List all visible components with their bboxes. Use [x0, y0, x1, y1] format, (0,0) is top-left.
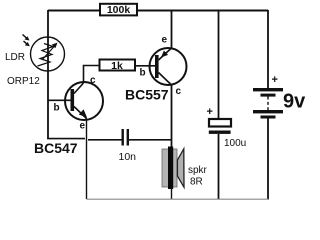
label BC557	[125, 87, 169, 103]
label 8R	[190, 177, 203, 188]
speaker spkr 8R	[162, 147, 184, 190]
svg-text:BC557: BC557	[125, 87, 169, 103]
svg-text:b: b	[140, 68, 146, 79]
svg-text:BC547: BC547	[34, 140, 78, 156]
svg-text:ORP12: ORP12	[7, 76, 40, 87]
wire left rail bottom horizontal to emitter node	[47, 138, 85, 140]
LDR ORP12	[31, 37, 65, 71]
transistor Q2 BC557	[150, 48, 187, 86]
wire 100u top from rail	[218, 10, 220, 119]
wire bottom rail	[87, 198, 269, 200]
capacitor 100u	[209, 119, 231, 134]
wire speaker to bottom rail	[171, 187, 173, 199]
wire battery top from rail	[267, 10, 269, 88]
svg-text:8R: 8R	[190, 177, 203, 188]
svg-text:c: c	[176, 86, 182, 97]
label 9v	[283, 91, 306, 113]
wire BC547 emitter down	[86, 118, 88, 199]
svg-text:+: +	[272, 74, 278, 86]
pin label c (BC547)	[90, 75, 96, 86]
resistor 100k	[100, 4, 137, 16]
svg-text:b: b	[54, 103, 60, 114]
light arrow 2 into LDR	[24, 41, 30, 46]
transistor Q1 BC547	[65, 82, 103, 120]
svg-text:c: c	[90, 75, 96, 86]
pin label c (BC557)	[176, 86, 182, 97]
battery 9v	[253, 88, 283, 119]
pin label b (BC547)	[54, 103, 60, 114]
wire BC547 base wire	[48, 99, 71, 101]
svg-text:100u: 100u	[224, 138, 246, 149]
wire 10n right plate to speaker node	[129, 139, 172, 141]
label ORP12	[7, 76, 40, 87]
wire BC557 emitter to top rail	[171, 10, 173, 48]
wire BC547 collector up	[84, 66, 101, 84]
label BC547	[34, 140, 78, 156]
wire emitter node to 10n left plate	[88, 139, 122, 141]
resistor 1k	[100, 60, 136, 72]
label + (battery)	[272, 74, 278, 86]
svg-text:spkr: spkr	[188, 165, 208, 176]
label 100u	[224, 138, 246, 149]
label + (100u)	[207, 106, 213, 118]
label 10n	[119, 151, 137, 163]
svg-text:LDR: LDR	[5, 52, 25, 63]
wire 100u bottom to rail	[218, 134, 220, 199]
svg-text:e: e	[80, 121, 86, 132]
pin label e (BC547)	[80, 121, 86, 132]
svg-text:100k: 100k	[107, 4, 131, 16]
light arrow 1 into LDR	[23, 35, 30, 41]
svg-text:1k: 1k	[111, 60, 123, 72]
svg-text:e: e	[162, 35, 168, 46]
capacitor 10n	[122, 129, 130, 146]
wire 1k to BC557 base	[135, 65, 155, 67]
wire top rail	[48, 10, 268, 12]
label LDR	[5, 52, 25, 63]
svg-text:9v: 9v	[283, 91, 306, 113]
pin label b (BC557)	[140, 68, 146, 79]
svg-text:10n: 10n	[119, 151, 137, 163]
wire BC557 collector down to speaker	[171, 85, 173, 149]
pin label e (BC557)	[162, 35, 168, 46]
svg-text:+: +	[207, 106, 213, 118]
wire left rail vertical	[47, 10, 49, 139]
label spkr	[188, 165, 208, 176]
wire battery bottom to rail	[267, 119, 269, 200]
